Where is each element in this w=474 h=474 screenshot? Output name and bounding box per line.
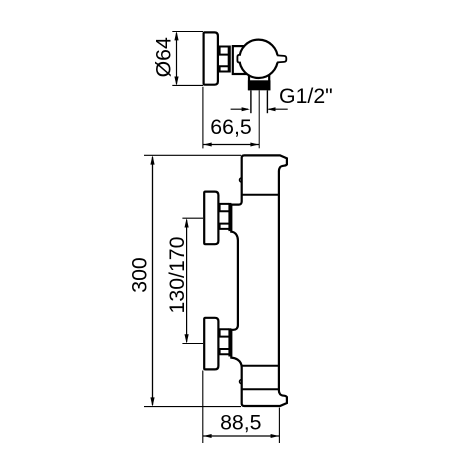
svg-text:G1/2": G1/2" (279, 84, 333, 108)
svg-text:300: 300 (128, 257, 152, 293)
svg-text:88,5: 88,5 (220, 411, 261, 435)
svg-text:66,5: 66,5 (210, 115, 251, 139)
svg-text:Ø64: Ø64 (152, 37, 176, 77)
svg-text:130/170: 130/170 (165, 236, 189, 313)
